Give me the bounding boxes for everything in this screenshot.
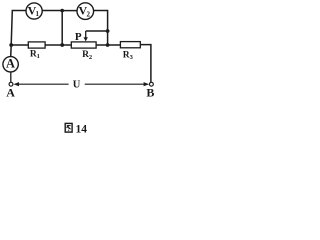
wire: V1 to junction J1 [42, 10, 62, 12]
wire: left vertical (top-left corner down to R1-row node) [11, 11, 12, 46]
caption: hanzi TU (figure) drawn glyph [65, 123, 72, 132]
voltmeter V1 [26, 3, 42, 19]
dimension arrow: U left segment with arrowhead at terminal A [13, 82, 68, 86]
wire: V2 to top-right corner and down to R2-R3 node [94, 11, 108, 46]
resistor R2 (rheostat track) [71, 42, 96, 48]
svg-text:P: P [75, 31, 82, 43]
wire: R1 to R2 through node [45, 44, 71, 46]
wire: left node down to ammeter [10, 45, 13, 57]
svg-text:1: 1 [35, 10, 39, 18]
wire: vertical from J1 down to R1-R2 node [61, 11, 63, 45]
label R2 [82, 50, 92, 61]
svg-text:A: A [6, 56, 15, 70]
node: R-row left junction [9, 43, 13, 47]
node: R1-R2 junction [60, 43, 64, 47]
svg-text:2: 2 [86, 10, 90, 18]
voltmeter V2 [77, 3, 94, 20]
wire: R2 to R3 through node [96, 44, 120, 46]
dimension arrow: U right segment with arrowhead at terminal B [85, 82, 150, 86]
wire: J1 to V2 [62, 10, 77, 12]
wire: wiper tap line to right vertical [86, 30, 108, 32]
label R3 [123, 50, 134, 61]
node: R2-R3 junction [106, 43, 110, 47]
svg-text:1: 1 [37, 53, 40, 60]
svg-text:14: 14 [76, 123, 88, 135]
node J1 (top wire tap junction) [60, 9, 64, 13]
node: wiper tap junction [106, 29, 110, 33]
label R1 [30, 50, 40, 61]
wiper arrow P of rheostat R2 [84, 31, 88, 41]
ammeter A [3, 56, 18, 72]
svg-text:A: A [6, 86, 15, 100]
svg-text:B: B [146, 85, 154, 99]
terminal A (open circle) [9, 82, 13, 86]
wire: R-row left node to R1 [11, 44, 28, 46]
wire: ammeter to terminal A [10, 72, 12, 82]
resistor R1 [28, 42, 45, 48]
svg-text:U: U [73, 80, 81, 91]
terminal B (open circle) [150, 82, 154, 86]
wire: top row, corner to V1 [12, 10, 26, 12]
resistor R3 [120, 42, 140, 48]
svg-text:2: 2 [89, 54, 92, 61]
wire: R3 to right corner and down to terminal B [140, 45, 151, 83]
